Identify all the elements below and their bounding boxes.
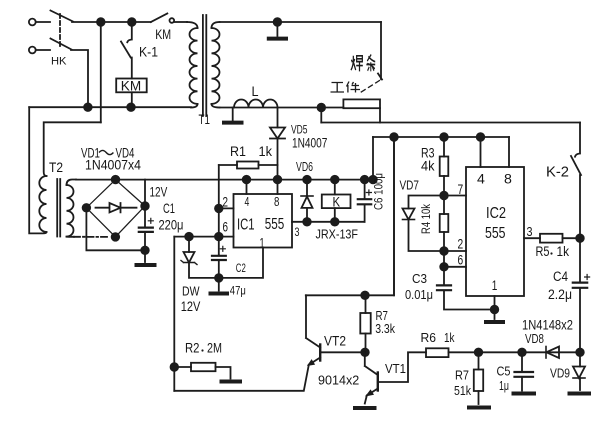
svg-text:C3: C3	[412, 272, 427, 286]
svg-text:3.3k: 3.3k	[375, 321, 395, 336]
svg-text:1N4148x2: 1N4148x2	[522, 318, 573, 333]
svg-text:4: 4	[245, 196, 250, 210]
svg-text:T1: T1	[199, 111, 210, 127]
svg-text:C2: C2	[236, 263, 246, 276]
svg-text:T2: T2	[49, 159, 63, 175]
svg-text:C1: C1	[163, 201, 175, 216]
svg-text:1k: 1k	[444, 332, 455, 345]
svg-text:0.01μ: 0.01μ	[405, 287, 433, 302]
svg-text:2M: 2M	[207, 340, 222, 355]
svg-text:4: 4	[477, 171, 485, 187]
svg-text:C4: C4	[553, 269, 568, 284]
svg-text:C5: C5	[497, 364, 511, 379]
svg-text:1k: 1k	[557, 244, 570, 259]
svg-text:220μ: 220μ	[159, 217, 184, 232]
svg-text:R7: R7	[455, 369, 469, 383]
svg-text:HK: HK	[51, 56, 67, 68]
svg-text:VT1: VT1	[385, 362, 406, 377]
svg-text:R1: R1	[230, 143, 246, 159]
svg-text:VD9: VD9	[550, 366, 570, 380]
svg-text:VT2: VT2	[324, 333, 346, 349]
svg-text:K-1: K-1	[139, 44, 158, 60]
svg-text:R4 10k: R4 10k	[420, 203, 433, 233]
svg-text:47μ: 47μ	[230, 285, 246, 298]
svg-text:8: 8	[274, 196, 279, 210]
svg-text:KM: KM	[121, 79, 141, 94]
svg-text:1μ: 1μ	[499, 380, 509, 394]
svg-text:555: 555	[265, 216, 285, 233]
svg-text:51k: 51k	[454, 385, 471, 398]
svg-text:3: 3	[527, 225, 533, 239]
svg-text:L: L	[252, 84, 259, 100]
svg-text:C6 100μ: C6 100μ	[373, 173, 386, 210]
svg-text:R2: R2	[185, 341, 200, 356]
svg-text:1: 1	[492, 277, 498, 293]
svg-text:1: 1	[260, 235, 265, 252]
svg-text:VD8: VD8	[525, 333, 544, 347]
svg-text:2: 2	[223, 194, 229, 210]
svg-text:IC1: IC1	[237, 216, 255, 233]
svg-text:1N4007x4: 1N4007x4	[85, 157, 141, 173]
svg-text:K: K	[333, 195, 341, 210]
svg-text:VD7: VD7	[400, 178, 419, 193]
svg-text:VD6: VD6	[296, 161, 313, 175]
svg-text:6: 6	[458, 252, 464, 268]
svg-text:JRX-13F: JRX-13F	[316, 227, 359, 242]
svg-text:4k: 4k	[421, 158, 435, 174]
svg-text:R5: R5	[536, 244, 550, 259]
svg-text:12V: 12V	[150, 184, 169, 200]
svg-text:2: 2	[458, 236, 464, 252]
svg-text:KM: KM	[155, 27, 171, 43]
svg-text:9014x2: 9014x2	[318, 374, 359, 388]
svg-text:7: 7	[458, 182, 464, 198]
svg-text:555: 555	[485, 224, 506, 242]
svg-text:2.2μ: 2.2μ	[548, 286, 572, 302]
svg-text:3: 3	[295, 226, 300, 240]
svg-text:DW: DW	[182, 283, 200, 298]
svg-text:R6: R6	[421, 331, 437, 345]
svg-text:8: 8	[504, 171, 512, 187]
svg-text:6: 6	[223, 219, 229, 235]
svg-text:K-2: K-2	[546, 165, 569, 181]
svg-text:12V: 12V	[181, 299, 201, 315]
svg-text:1N4007: 1N4007	[292, 135, 328, 151]
svg-text:1k: 1k	[259, 143, 273, 159]
svg-text:IC2: IC2	[486, 205, 506, 222]
